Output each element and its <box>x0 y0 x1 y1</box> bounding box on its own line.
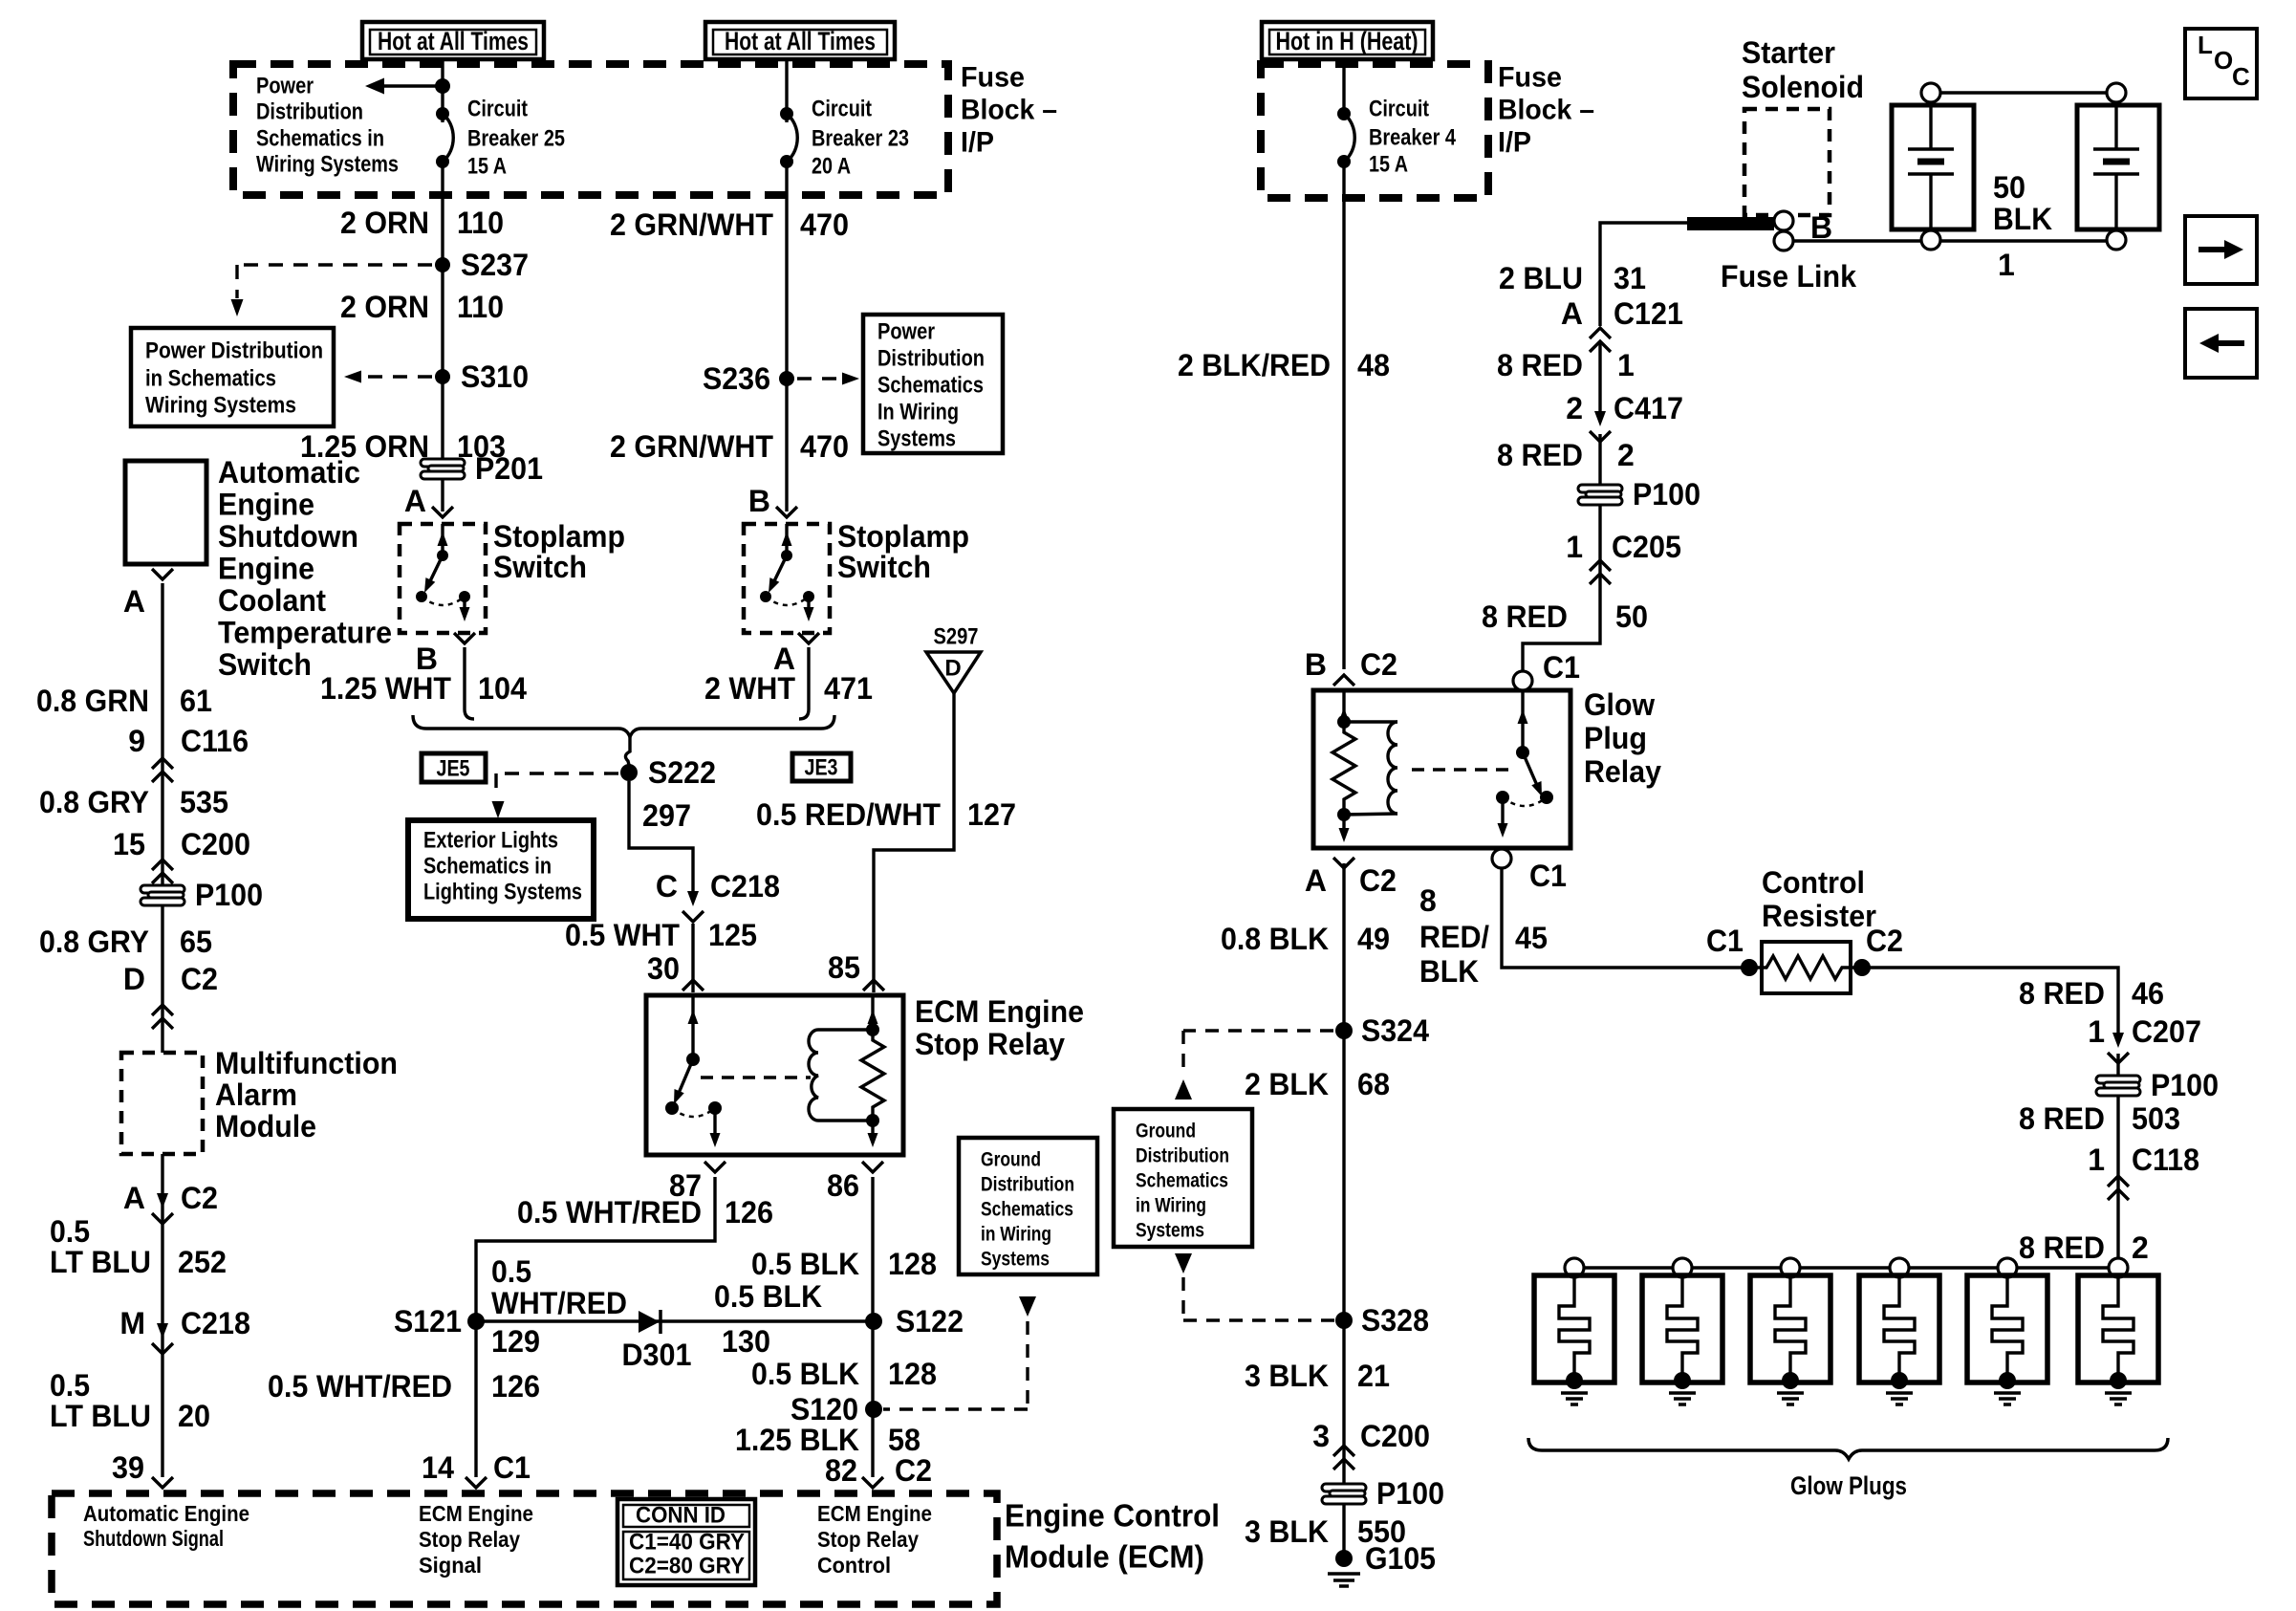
svg-text:BLK: BLK <box>1993 202 2052 236</box>
connector P100 (middle) <box>1322 1476 1444 1511</box>
label Automatic Engine Shutdown Signal <box>83 1501 249 1551</box>
svg-text:LT BLU: LT BLU <box>50 1245 151 1279</box>
fuse block I/P dashed box <box>233 64 948 195</box>
junction brace joining stoplamp wires <box>413 715 834 737</box>
wire stoplamp2 down <box>799 647 809 719</box>
wire breaker25 to P201 <box>441 162 444 458</box>
svg-text:Stoplamp: Stoplamp <box>837 519 969 554</box>
svg-text:86: 86 <box>827 1168 859 1203</box>
svg-text:0.5 RED/WHT: 0.5 RED/WHT <box>756 797 941 832</box>
svg-text:68: 68 <box>1357 1067 1390 1101</box>
label 2 BLK 68 <box>1245 1067 1390 1101</box>
svg-text:C1: C1 <box>1529 859 1567 893</box>
LOC legend box <box>2185 29 2257 98</box>
svg-text:Alarm: Alarm <box>215 1078 297 1112</box>
svg-text:D: D <box>123 962 145 996</box>
box: Ground Distribution Schematics in Wiring Systems (right) <box>1114 1109 1252 1247</box>
text: Power Distribution Schematics in Wiring Systems (inside fuse block) <box>256 74 399 178</box>
svg-text:1.25 WHT: 1.25 WHT <box>320 671 451 706</box>
svg-text:2 WHT: 2 WHT <box>704 671 795 706</box>
ground G105 <box>1328 1541 1436 1586</box>
svg-text:WHT/RED: WHT/RED <box>491 1286 627 1320</box>
ECM relay resistor <box>861 995 884 1147</box>
connector C200 pin 3 <box>1312 1419 1430 1469</box>
label box: Hot in H (Heat) <box>1262 22 1433 59</box>
svg-text:2 GRN/WHT: 2 GRN/WHT <box>610 429 773 464</box>
svg-text:C2: C2 <box>1359 863 1397 898</box>
pin C1 bottom of glow relay <box>1492 849 1567 893</box>
svg-text:20: 20 <box>178 1399 210 1433</box>
svg-text:126: 126 <box>491 1369 540 1404</box>
svg-text:C121: C121 <box>1614 296 1683 331</box>
label 50 BLK 1 <box>1993 170 2052 282</box>
svg-text:P201: P201 <box>475 451 543 486</box>
connector P100 (left) <box>141 878 263 912</box>
svg-text:Wiring Systems: Wiring Systems <box>145 393 296 419</box>
svg-text:B: B <box>748 484 770 518</box>
pin B of stoplamp switch 2 <box>748 484 797 518</box>
svg-text:0.5: 0.5 <box>50 1214 90 1249</box>
node S310 <box>435 359 529 394</box>
dashed link S324 to ground box <box>1175 1031 1333 1099</box>
svg-text:M: M <box>119 1306 145 1340</box>
wire C205 to glow relay C1 <box>1523 582 1600 671</box>
svg-text:S328: S328 <box>1361 1303 1429 1338</box>
svg-text:O: O <box>2214 46 2233 75</box>
label 8 RED 46 <box>2019 976 2164 1011</box>
svg-text:Glow: Glow <box>1584 687 1655 722</box>
svg-text:58: 58 <box>888 1423 921 1457</box>
pin C1 top of glow relay <box>1513 650 1580 690</box>
svg-text:50: 50 <box>1993 170 2025 205</box>
svg-text:1: 1 <box>1566 530 1583 564</box>
node S236 <box>703 361 794 396</box>
node S222 <box>620 755 716 790</box>
label 0.5 BLK 128 (second) <box>751 1357 937 1391</box>
svg-text:ECM Engine: ECM Engine <box>817 1501 932 1526</box>
svg-text:Systems: Systems <box>981 1249 1050 1271</box>
svg-text:39: 39 <box>112 1450 144 1485</box>
node S122 <box>865 1304 964 1339</box>
svg-text:Lighting Systems: Lighting Systems <box>423 880 582 905</box>
box: Ground Distribution Schematics in Wiring Systems (left) <box>959 1138 1097 1274</box>
svg-text:0.8 GRY: 0.8 GRY <box>39 785 149 819</box>
box: Exterior Lights Schematics in Lighting Systems <box>408 820 594 919</box>
svg-text:Control: Control <box>1762 865 1865 900</box>
wire C207 to glow plugs <box>2116 1054 2119 1268</box>
connector C218 pin M <box>119 1306 250 1354</box>
pin A of stoplamp switch 1 <box>404 484 453 518</box>
svg-text:14: 14 <box>422 1450 454 1485</box>
svg-text:Engine: Engine <box>218 488 314 522</box>
label 3 BLK 21 <box>1245 1359 1390 1393</box>
svg-text:252: 252 <box>178 1245 227 1279</box>
svg-text:2 GRN/WHT: 2 GRN/WHT <box>610 207 773 242</box>
battery 2 <box>2077 83 2159 250</box>
svg-text:RED/: RED/ <box>1419 920 1489 954</box>
glow plug <box>1642 1258 1722 1404</box>
svg-text:D301: D301 <box>622 1338 692 1372</box>
dashed link from S237 <box>231 265 433 316</box>
svg-text:8 RED: 8 RED <box>1497 348 1583 382</box>
svg-text:Hot at All Times: Hot at All Times <box>378 27 529 55</box>
label 8 RED 1 <box>1497 348 1635 382</box>
svg-text:Shutdown Signal: Shutdown Signal <box>83 1526 224 1551</box>
pin 86 of ECM relay <box>827 1162 883 1203</box>
svg-text:31: 31 <box>1614 261 1646 295</box>
connector C121 pin A <box>1561 296 1683 352</box>
label ECM Engine Stop Relay Signal <box>419 1501 533 1578</box>
svg-text:C1: C1 <box>1543 650 1580 685</box>
glow plug supply rail <box>1574 1266 2118 1269</box>
svg-text:C1=40 GRY: C1=40 GRY <box>629 1530 745 1556</box>
connector C417 pin 2 <box>1566 391 1683 442</box>
connector C118 pin 1 <box>2088 1143 2199 1200</box>
svg-text:1.25 BLK: 1.25 BLK <box>735 1423 859 1457</box>
svg-text:C1: C1 <box>493 1450 531 1485</box>
wire from Hot in H <box>1342 59 1345 117</box>
pin 39 of ECM <box>112 1450 173 1488</box>
svg-text:Systems: Systems <box>1136 1220 1204 1242</box>
svg-text:Relay: Relay <box>1584 754 1661 789</box>
multifunction alarm module dashed box <box>121 1053 203 1154</box>
svg-text:Coolant: Coolant <box>218 583 326 618</box>
starter solenoid dashed box <box>1744 109 1830 215</box>
Glow Plug Relay box <box>1313 690 1570 848</box>
label 0.5 BLK 130 <box>714 1279 822 1359</box>
svg-text:ECM Engine: ECM Engine <box>915 994 1084 1029</box>
connector P100 (right) <box>2096 1068 2219 1102</box>
svg-text:3 BLK: 3 BLK <box>1245 1359 1329 1393</box>
svg-text:Multifunction: Multifunction <box>215 1046 398 1080</box>
glow relay switch <box>1496 690 1553 838</box>
arrow right legend box <box>2185 216 2257 284</box>
label 8 RED 503 <box>2019 1101 2180 1136</box>
svg-text:G105: G105 <box>1365 1541 1436 1576</box>
svg-text:S310: S310 <box>461 359 529 394</box>
svg-text:49: 49 <box>1357 922 1390 956</box>
label 0.5 LT BLU 20 <box>50 1368 210 1433</box>
svg-text:0.5 WHT: 0.5 WHT <box>565 918 680 952</box>
label Automatic Engine Shutdown Engine Coolant Temperature Switch <box>218 455 392 682</box>
junction box JE5 <box>422 753 486 782</box>
svg-text:0.8 BLK: 0.8 BLK <box>1221 922 1329 956</box>
svg-text:126: 126 <box>725 1195 773 1230</box>
svg-text:In Wiring: In Wiring <box>877 400 959 425</box>
label 0.8 GRN 61 <box>36 684 212 718</box>
label Stoplamp Switch 1 <box>493 519 625 584</box>
connector P100 (riser) <box>1578 477 1700 512</box>
svg-text:Distribution: Distribution <box>981 1174 1074 1196</box>
svg-text:2 BLK: 2 BLK <box>1245 1067 1329 1101</box>
glow plug <box>1750 1258 1830 1404</box>
svg-text:2 BLK/RED: 2 BLK/RED <box>1178 348 1331 382</box>
svg-text:A: A <box>1561 296 1583 331</box>
svg-text:Temperature: Temperature <box>218 616 392 650</box>
svg-text:110: 110 <box>457 290 504 324</box>
svg-text:P100: P100 <box>195 878 263 912</box>
svg-text:110: 110 <box>457 206 504 240</box>
connector C207 pin 1 <box>2088 1014 2201 1063</box>
label 8 RED/BLK 45 <box>1419 883 1548 989</box>
svg-text:Circuit: Circuit <box>1369 97 1429 122</box>
svg-text:S122: S122 <box>896 1304 964 1339</box>
svg-text:125: 125 <box>708 918 757 952</box>
label 0.5 BLK 128 <box>751 1247 937 1281</box>
svg-text:Stop Relay: Stop Relay <box>817 1527 919 1552</box>
svg-text:Automatic: Automatic <box>218 455 360 490</box>
svg-text:Shutdown: Shutdown <box>218 519 358 554</box>
wire control resistor to C207 <box>1862 968 2118 1038</box>
label Stoplamp Switch 2 <box>837 519 969 584</box>
label 2 ORN 110 <box>340 206 504 240</box>
wire breaker4 to glow plug relay <box>1342 162 1345 669</box>
svg-text:45: 45 <box>1515 921 1548 955</box>
svg-text:P100: P100 <box>1633 477 1700 512</box>
connector C2 pin A <box>123 1181 218 1224</box>
svg-text:C2: C2 <box>1866 924 1903 958</box>
svg-text:50: 50 <box>1615 599 1648 634</box>
svg-text:9: 9 <box>128 724 145 758</box>
svg-text:Systems: Systems <box>877 426 956 452</box>
label ECM Engine Stop Relay <box>915 994 1084 1061</box>
svg-text:1: 1 <box>1617 348 1635 382</box>
svg-text:C: C <box>2232 62 2250 91</box>
glow plug <box>1859 1258 1939 1404</box>
ECM relay coil <box>809 1030 873 1121</box>
box: Power Distribution in Schematics Wiring Systems <box>131 328 334 426</box>
label 8 RED 2 <box>1497 438 1635 472</box>
stoplamp switch 2 internals <box>760 524 814 621</box>
svg-text:8: 8 <box>1419 883 1437 918</box>
label ECM Engine Stop Relay Control <box>817 1501 932 1578</box>
svg-text:S236: S236 <box>703 361 770 396</box>
svg-text:Module (ECM): Module (ECM) <box>1005 1539 1204 1575</box>
Fuse Block I/P label (middle) <box>1498 62 1594 159</box>
wire coolant switch down <box>161 583 163 1053</box>
svg-text:Engine Control: Engine Control <box>1005 1498 1220 1534</box>
svg-text:Distribution: Distribution <box>877 346 985 372</box>
svg-text:LT BLU: LT BLU <box>50 1399 151 1433</box>
svg-text:C118: C118 <box>2132 1143 2199 1177</box>
glow relay coil and resistor <box>1332 690 1397 842</box>
svg-text:104: 104 <box>478 671 527 706</box>
wire C121 to C417 <box>1598 341 1601 421</box>
svg-text:Block –: Block – <box>1498 95 1594 126</box>
svg-text:2: 2 <box>1566 391 1583 425</box>
svg-text:85: 85 <box>828 950 860 985</box>
svg-text:Breaker 23: Breaker 23 <box>812 126 909 152</box>
box: Power Distribution Schematics In Wiring Systems (right) <box>863 315 1003 453</box>
svg-text:Circuit: Circuit <box>467 97 528 122</box>
wire brace to S222 <box>625 737 630 765</box>
svg-text:B: B <box>1305 647 1327 682</box>
label 2 ORN 110 (second) <box>340 290 504 324</box>
pin 30 of ECM relay <box>647 951 704 991</box>
svg-text:30: 30 <box>647 951 680 986</box>
wire pin87 to S121 <box>476 1177 715 1477</box>
svg-text:ECM Engine: ECM Engine <box>419 1501 533 1526</box>
pin A of coolant switch <box>123 569 173 619</box>
label 2 WHT 471 <box>704 671 873 706</box>
svg-text:C2: C2 <box>181 962 218 996</box>
ECM Engine Stop Relay box <box>646 995 903 1155</box>
svg-text:Schematics in: Schematics in <box>423 854 552 880</box>
svg-text:Hot in H (Heat): Hot in H (Heat) <box>1276 27 1419 55</box>
svg-text:128: 128 <box>888 1357 937 1391</box>
svg-text:L: L <box>2198 31 2213 59</box>
svg-text:Circuit: Circuit <box>812 97 872 122</box>
svg-text:Distribution: Distribution <box>1136 1145 1229 1167</box>
svg-text:61: 61 <box>180 684 212 718</box>
svg-text:Block –: Block – <box>961 95 1057 126</box>
svg-text:A: A <box>123 584 145 619</box>
svg-text:C2: C2 <box>895 1453 932 1488</box>
svg-text:1: 1 <box>1998 248 2015 282</box>
stoplamp switch 1 internals <box>416 524 470 621</box>
svg-text:C207: C207 <box>2132 1014 2201 1049</box>
svg-text:82: 82 <box>825 1453 857 1488</box>
svg-text:0.5: 0.5 <box>491 1254 531 1289</box>
svg-text:48: 48 <box>1357 348 1390 382</box>
svg-text:Ground: Ground <box>1136 1121 1196 1143</box>
svg-text:C2: C2 <box>1360 647 1397 682</box>
label 1.25 ORN 103 <box>300 429 506 464</box>
label Glow Plug Relay <box>1584 687 1661 789</box>
svg-text:129: 129 <box>491 1324 540 1359</box>
svg-text:Breaker 25: Breaker 25 <box>467 126 565 152</box>
label 0.5 WHT 125 <box>565 918 757 952</box>
svg-text:Automatic Engine: Automatic Engine <box>83 1501 249 1526</box>
node S324 <box>1335 1013 1429 1048</box>
pin B C2 of glow plug relay <box>1305 647 1397 686</box>
svg-text:2: 2 <box>1617 438 1635 472</box>
svg-text:Exterior Lights: Exterior Lights <box>423 828 558 854</box>
svg-text:C2: C2 <box>181 1181 218 1215</box>
glow plug <box>2078 1258 2158 1404</box>
glow relay dashed actuator line <box>1412 768 1508 771</box>
svg-text:Control: Control <box>817 1553 891 1578</box>
automatic engine shutdown switch box <box>125 461 206 564</box>
svg-text:8 RED: 8 RED <box>2019 1101 2105 1136</box>
label 0.5 LT BLU 252 <box>50 1214 227 1279</box>
wire stoplamp1 down <box>465 647 474 719</box>
svg-text:I/P: I/P <box>961 127 994 159</box>
label 0.5 WHT/RED 126 (second) <box>268 1369 540 1404</box>
node S120 <box>791 1392 882 1426</box>
svg-text:0.5: 0.5 <box>50 1368 90 1403</box>
svg-text:8 RED: 8 RED <box>2019 976 2105 1011</box>
wire glow relay A to G105 <box>1342 863 1345 1551</box>
pin A C2 of glow relay <box>1305 858 1397 898</box>
svg-text:1: 1 <box>2088 1014 2105 1049</box>
svg-text:Switch: Switch <box>837 550 931 584</box>
label box: Hot at All Times (right) <box>705 22 895 59</box>
wire alarm module down <box>161 1154 163 1477</box>
svg-text:Resister: Resister <box>1762 899 1876 933</box>
svg-text:Schematics: Schematics <box>981 1199 1073 1221</box>
svg-text:0.8 GRN: 0.8 GRN <box>36 684 149 718</box>
svg-text:S324: S324 <box>1361 1013 1429 1048</box>
svg-text:in Wiring: in Wiring <box>1136 1195 1206 1217</box>
connector C205 pin 1 <box>1566 530 1681 584</box>
ECM relay dashed actuator line <box>701 1076 811 1078</box>
svg-text:Switch: Switch <box>218 647 312 682</box>
diode D301 <box>622 1310 692 1372</box>
fuse block I/P dashed box (middle) <box>1261 64 1488 198</box>
svg-text:A: A <box>123 1181 145 1215</box>
svg-text:130: 130 <box>722 1324 770 1359</box>
wire S222 to C218 <box>629 781 693 897</box>
svg-text:2 ORN: 2 ORN <box>340 290 429 324</box>
arrow to power distribution <box>365 78 450 95</box>
svg-text:0.8 GRY: 0.8 GRY <box>39 925 149 959</box>
pin B of stoplamp switch 1 <box>416 633 475 676</box>
dashed link ground box to S120 <box>883 1296 1036 1409</box>
circuit breaker 4 15A <box>1337 97 1457 178</box>
svg-text:128: 128 <box>888 1247 937 1281</box>
label box: Hot at All Times (left) <box>362 22 544 59</box>
svg-text:0.5 BLK: 0.5 BLK <box>751 1357 859 1391</box>
svg-text:S120: S120 <box>791 1392 858 1426</box>
svg-text:Power: Power <box>877 319 935 345</box>
svg-text:P100: P100 <box>2151 1068 2219 1102</box>
svg-text:Power Distribution: Power Distribution <box>145 338 323 364</box>
wire riser to fuse link <box>1600 223 1687 326</box>
svg-text:21: 21 <box>1357 1359 1390 1393</box>
svg-text:C116: C116 <box>181 724 249 758</box>
svg-text:65: 65 <box>180 925 212 959</box>
svg-text:C200: C200 <box>1360 1419 1430 1453</box>
svg-text:Hot at All Times: Hot at All Times <box>725 27 876 55</box>
svg-text:Switch: Switch <box>493 550 587 584</box>
junction box JE3 <box>792 753 851 781</box>
CONN ID table <box>617 1499 755 1585</box>
svg-text:Schematics: Schematics <box>1136 1170 1228 1192</box>
svg-text:C200: C200 <box>181 827 250 861</box>
label 1.25 BLK 58 <box>735 1423 921 1457</box>
fuse link <box>1687 210 1856 294</box>
svg-text:CONN ID: CONN ID <box>636 1503 726 1529</box>
pin 87 of ECM relay <box>669 1162 726 1203</box>
connector C116 pin 9 <box>128 724 249 782</box>
svg-text:A: A <box>1305 863 1327 898</box>
dashed arrow S310 to box <box>344 371 432 383</box>
svg-text:Plug: Plug <box>1584 721 1647 755</box>
svg-text:0.5 WHT/RED: 0.5 WHT/RED <box>268 1369 452 1404</box>
label 2 BLK/RED 48 <box>1178 348 1390 382</box>
connector C200 pin 15 <box>113 827 250 883</box>
svg-text:0.5 BLK: 0.5 BLK <box>751 1247 859 1281</box>
label 2 BLU 31 <box>1499 261 1646 295</box>
svg-text:C205: C205 <box>1612 530 1681 564</box>
dashed arrow S236 to box <box>797 373 859 385</box>
svg-text:C: C <box>656 869 678 903</box>
Fuse Block I/P label <box>961 62 1057 159</box>
svg-text:I/P: I/P <box>1498 127 1531 159</box>
glow plug <box>1967 1258 2047 1404</box>
svg-text:C2=80 GRY: C2=80 GRY <box>629 1554 745 1579</box>
label 3 BLK 550 <box>1245 1514 1406 1549</box>
wire S297 to relay pin 85 <box>874 693 954 992</box>
svg-text:Stop Relay: Stop Relay <box>915 1027 1065 1061</box>
wire breaker23 down <box>785 162 788 512</box>
wire C417 to P100 <box>1598 434 1601 582</box>
svg-text:JE5: JE5 <box>437 756 470 782</box>
svg-text:3: 3 <box>1312 1419 1330 1453</box>
svg-text:46: 46 <box>2132 976 2164 1011</box>
label 0.8 BLK 49 <box>1221 922 1390 956</box>
